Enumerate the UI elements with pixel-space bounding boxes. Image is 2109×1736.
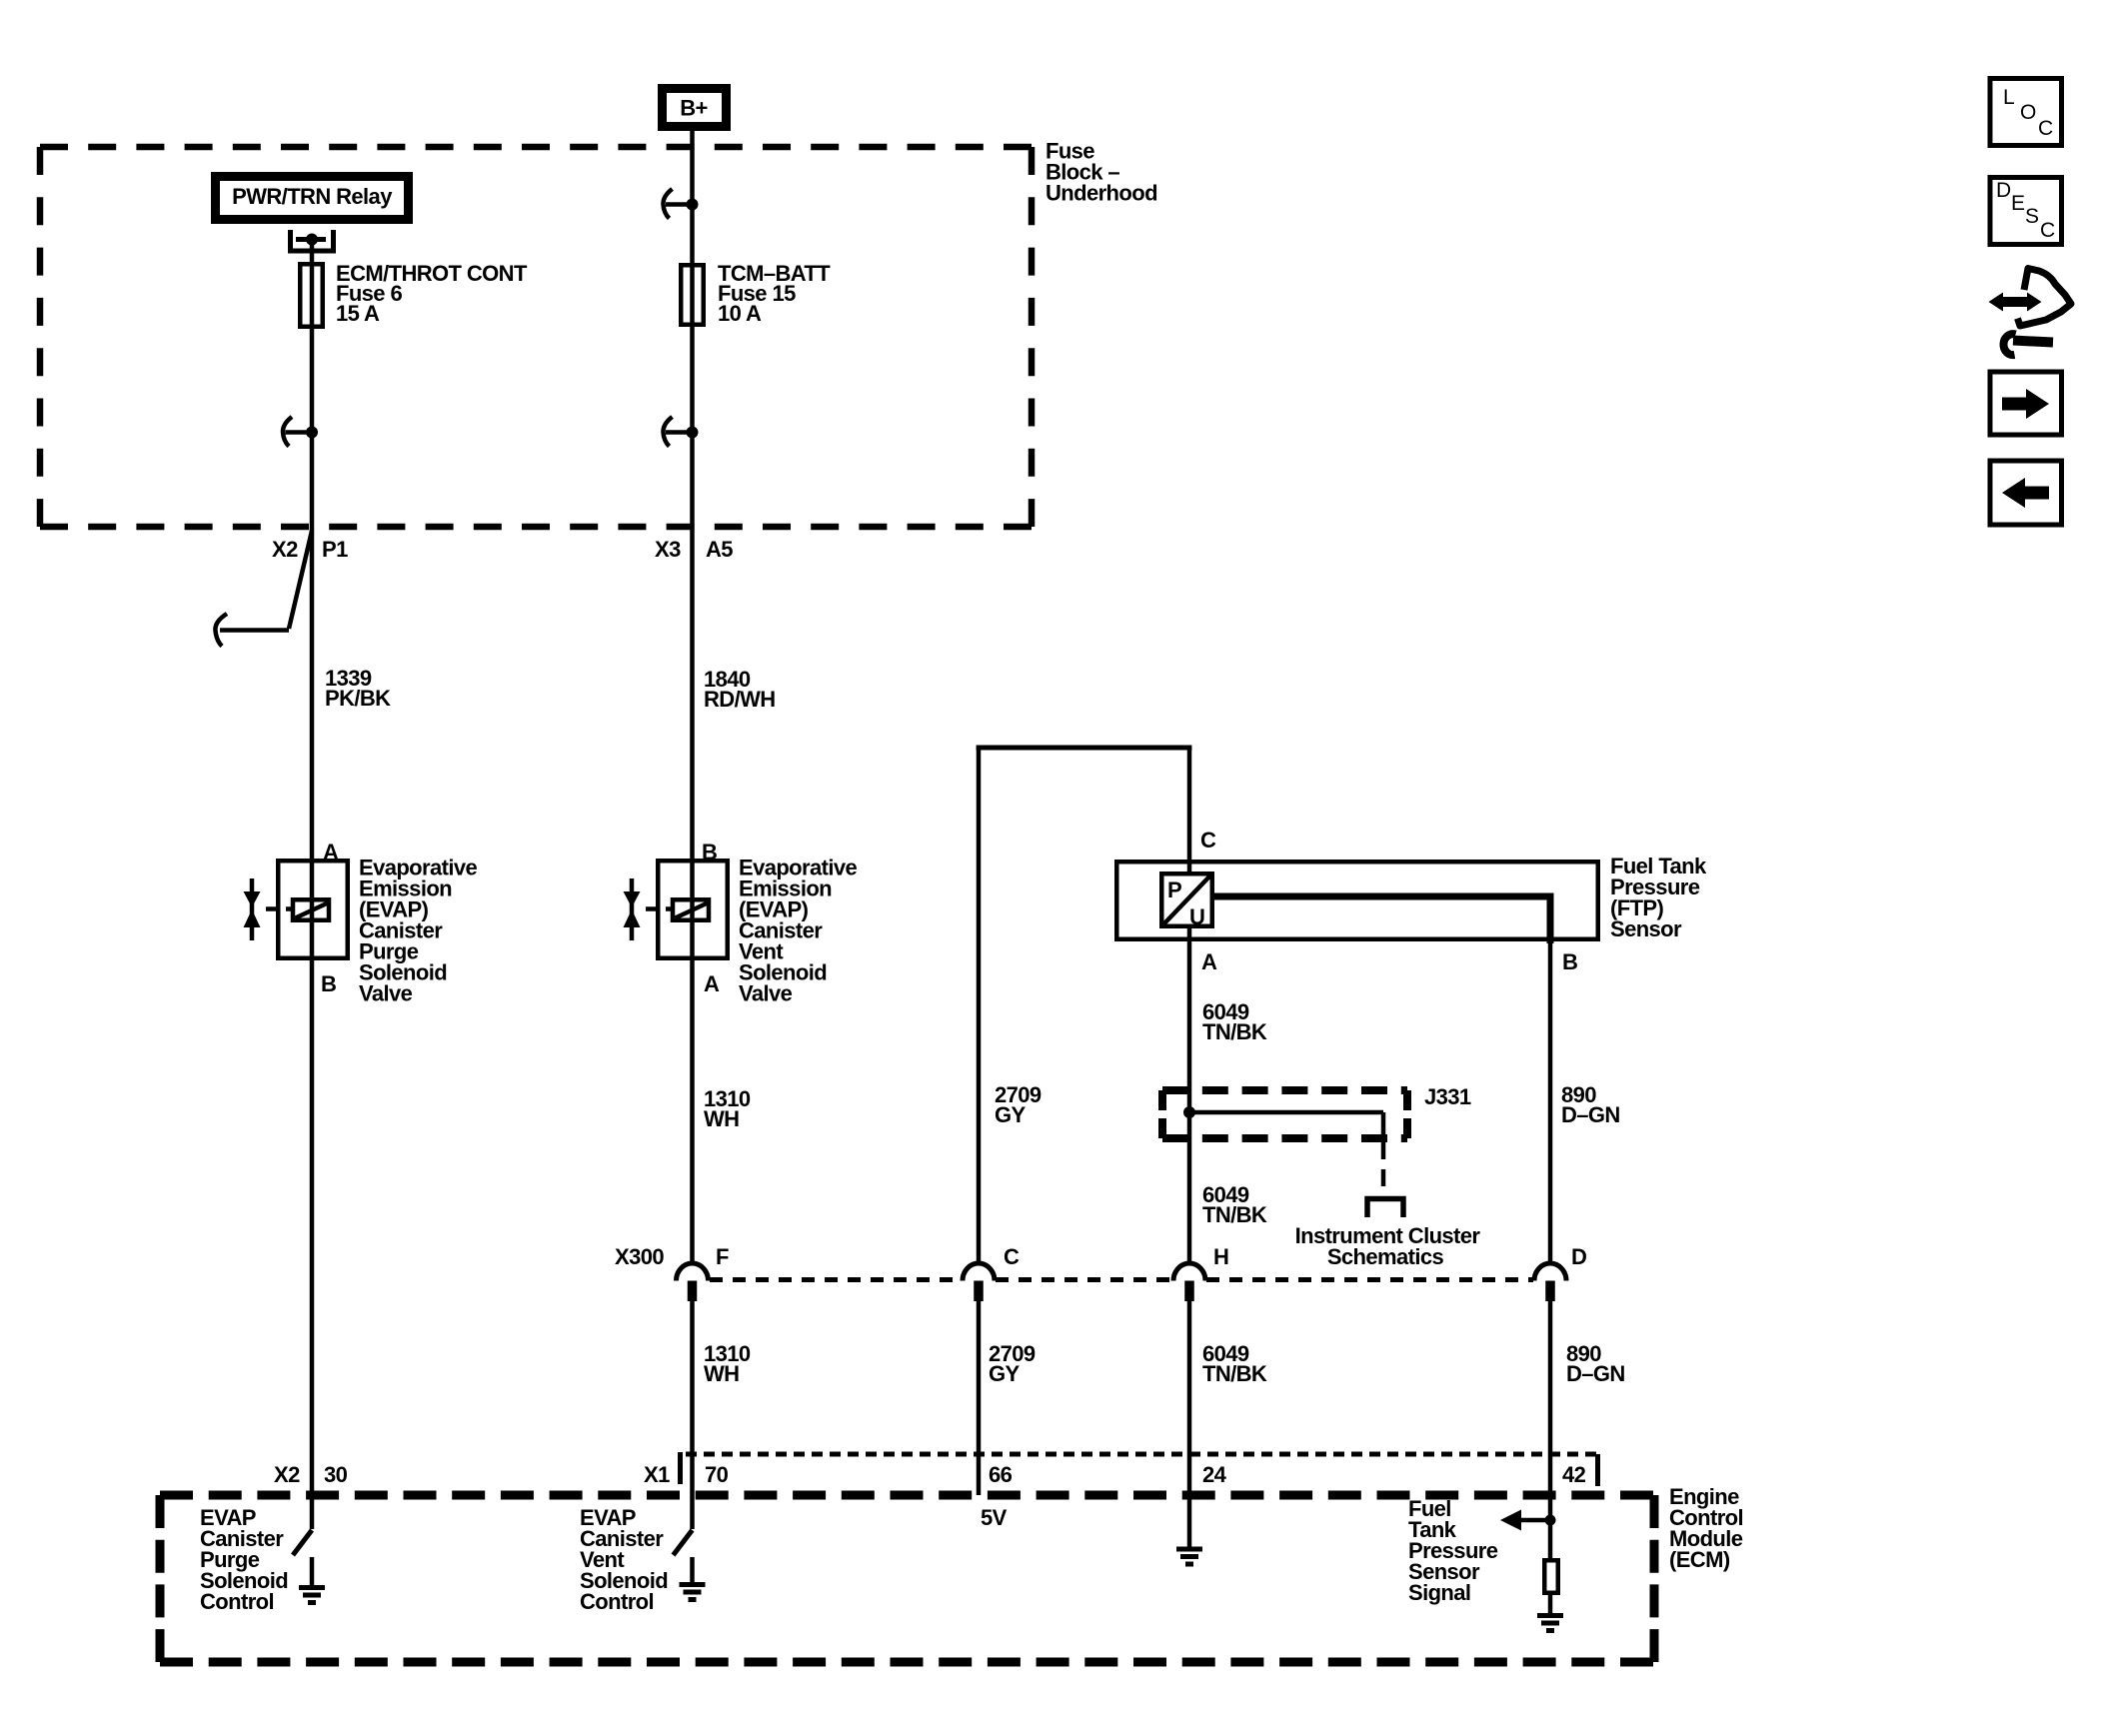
relay PWR/TRN Relay (label box) (216, 177, 409, 220)
label wire 1840 RD/WH (704, 667, 776, 712)
svg-text:70: 70 (705, 1462, 729, 1487)
icon LOC box (1990, 79, 2062, 146)
label wire 6049 TN/BK bottom (1202, 1341, 1267, 1386)
svg-text:24: 24 (1202, 1462, 1227, 1487)
svg-text:O: O (2020, 101, 2036, 124)
label wire 6049 TN/BK lower (1202, 1182, 1267, 1227)
icon DESC box (1990, 178, 2062, 245)
svg-text:A: A (323, 840, 339, 865)
resistor pull-up in ECM (1544, 1560, 1558, 1593)
svg-text:D–GN: D–GN (1566, 1361, 1625, 1386)
connector X300 terminal C (963, 1244, 1020, 1301)
svg-text:D: D (1996, 179, 2011, 202)
label Fuel Tank Pressure Sensor Signal (1408, 1496, 1498, 1605)
svg-text:10 A: 10 A (718, 301, 762, 326)
wire 2709 GY vertical (977, 748, 982, 1495)
wire resistor to ground (1548, 1592, 1553, 1613)
driver switch vent control (674, 1530, 693, 1555)
splice junction node on 6049 (1183, 1106, 1195, 1118)
contact terminal on wire 1339 bottom (283, 417, 318, 447)
svg-text:A: A (704, 971, 720, 996)
svg-text:B: B (321, 971, 336, 996)
label Evaporative Emission (EVAP) Canister Vent Solenoid Valve (739, 856, 857, 1006)
label Evaporative Emission (EVAP) Canister Purge Solenoid Valve (359, 856, 477, 1006)
svg-text:TN/BK: TN/BK (1202, 1019, 1267, 1044)
svg-text:P1: P1 (322, 537, 348, 562)
svg-text:X3: X3 (655, 537, 681, 562)
sensor FTP fuel tank pressure box (1116, 862, 1598, 939)
svg-text:A: A (1201, 949, 1217, 974)
sensor P/U transducer symbol (1161, 873, 1212, 929)
svg-text:RD/WH: RD/WH (704, 687, 776, 712)
svg-text:Valve: Valve (739, 981, 793, 1006)
signal arrow fuel tank pressure sensor input (1500, 1510, 1556, 1531)
svg-text:C: C (2040, 219, 2055, 242)
wire 1840 RD/WH vertical (second branch) (690, 131, 695, 1263)
label Fuse Block - Underhood (1046, 139, 1157, 206)
label Engine Control Module (ECM) (1669, 1484, 1743, 1572)
svg-text:B: B (1562, 949, 1577, 974)
svg-text:C: C (1200, 828, 1216, 853)
svg-text:B+: B+ (680, 96, 708, 121)
svg-text:X1: X1 (644, 1462, 670, 1487)
ground ECM resistor (1537, 1616, 1563, 1631)
fuse block - underhood dashed enclosure (40, 147, 1032, 527)
label wire 2709 GY lower (989, 1341, 1036, 1386)
svg-text:Control: Control (200, 1589, 274, 1614)
wire splice branch to instrument cluster (1189, 1112, 1383, 1195)
svg-text:P: P (1167, 877, 1181, 902)
svg-text:U: U (1189, 904, 1204, 929)
svg-text:GY: GY (995, 1102, 1027, 1127)
svg-text:S: S (2025, 205, 2039, 228)
label X2 30 (274, 1462, 348, 1487)
label wire 6049 TN/BK upper (1202, 999, 1267, 1044)
wire 890 D-GN from sensor output (1212, 893, 1554, 1560)
svg-text:C: C (1004, 1244, 1020, 1269)
driver switch purge control (293, 1530, 312, 1555)
svg-text:H: H (1213, 1244, 1228, 1269)
label X1 70 (644, 1462, 729, 1487)
label wire 1310 WH lower (704, 1341, 751, 1386)
svg-text:E: E (2011, 192, 2025, 215)
svg-text:WH: WH (704, 1361, 739, 1386)
icon arrow right box (1990, 372, 2062, 435)
off-page bracket instrument cluster (1367, 1199, 1403, 1218)
solenoid EVAP canister purge valve (266, 861, 348, 958)
svg-text:GY: GY (989, 1361, 1021, 1386)
svg-text:Schematics: Schematics (1327, 1244, 1444, 1269)
label wire 2709 GY upper (995, 1082, 1042, 1127)
svg-text:X2: X2 (272, 537, 298, 562)
svg-text:Valve: Valve (359, 981, 413, 1006)
svg-text:Sensor: Sensor (1610, 916, 1682, 941)
ground 6049 sensor low reference (1176, 1549, 1202, 1564)
svg-text:F: F (716, 1244, 729, 1269)
splice J331 dashed box (1162, 1090, 1407, 1138)
valve arrows vent solenoid (624, 878, 641, 940)
label X2 P1 (272, 537, 348, 562)
icon double arrow with pointer scribble and wrench (1989, 269, 2072, 356)
connector X300 terminal D (1534, 1244, 1586, 1301)
svg-text:J331: J331 (1424, 1084, 1471, 1109)
svg-text:66: 66 (989, 1462, 1013, 1487)
svg-text:PK/BK: PK/BK (325, 686, 391, 711)
connector X2 pin P1 pass-through symbol (215, 531, 312, 647)
svg-text:Signal: Signal (1408, 1580, 1470, 1605)
ground purge driver (299, 1557, 325, 1603)
node B+ (battery feed box) (663, 89, 727, 127)
svg-text:(ECM): (ECM) (1669, 1547, 1730, 1572)
svg-text:42: 42 (1562, 1462, 1586, 1487)
fuse F15 TCM-BATT 10A (681, 261, 831, 326)
label EVAP Canister Purge Solenoid Control (200, 1505, 288, 1614)
fuse F6 ECM/THROT CONT 15A (300, 261, 528, 327)
svg-text:TN/BK: TN/BK (1202, 1202, 1267, 1227)
label Instrument Cluster Schematics (1295, 1223, 1481, 1269)
wire 6049 TN/BK vertical (1187, 748, 1192, 1547)
connector X300 terminal H (1173, 1244, 1228, 1301)
svg-text:A5: A5 (706, 537, 733, 562)
svg-text:C: C (2038, 117, 2053, 140)
wire 5V supply loop top (977, 746, 1192, 751)
connector X300 dashed row (710, 1277, 1533, 1282)
connector X1 bracket right (1595, 1454, 1600, 1486)
svg-text:D: D (1571, 1244, 1586, 1269)
svg-text:X300: X300 (615, 1244, 664, 1269)
svg-text:B: B (702, 840, 717, 865)
connector X1 pin row dotted line (686, 1452, 1597, 1457)
svg-text:X2: X2 (274, 1462, 300, 1487)
solenoid EVAP canister vent valve (646, 861, 728, 958)
label wire 1310 WH upper (704, 1086, 751, 1131)
relay PWR/TRN output terminal bracket (291, 230, 334, 251)
contact terminal on wire 1840 bottom (663, 417, 698, 447)
icon arrow left box (1990, 461, 2062, 525)
label EVAP Canister Vent Solenoid Control (580, 1505, 668, 1614)
connector X1 bracket left (678, 1452, 683, 1484)
svg-text:15 A: 15 A (336, 301, 380, 326)
label X3 A5 (655, 537, 733, 562)
ECM engine control module dashed box (160, 1495, 1654, 1662)
wire 1339 PK/BK vertical (left branch) (310, 240, 315, 1530)
svg-text:30: 30 (324, 1462, 348, 1487)
valve arrows purge solenoid (244, 878, 261, 940)
label wire 890 D-GN upper (1561, 1082, 1620, 1127)
label wire 890 D-GN bottom (1566, 1341, 1625, 1386)
label Fuel Tank Pressure (FTP) Sensor (1610, 854, 1707, 941)
svg-text:Underhood: Underhood (1046, 181, 1157, 206)
svg-text:Control: Control (580, 1589, 654, 1614)
svg-text:TN/BK: TN/BK (1202, 1361, 1267, 1386)
svg-text:5V: 5V (981, 1505, 1008, 1530)
label wire 1339 PK/BK (325, 666, 391, 711)
contact terminal on wire 1840 top (663, 189, 698, 219)
ground vent driver (680, 1557, 706, 1600)
connector X300 terminal F (677, 1244, 730, 1301)
svg-text:D–GN: D–GN (1561, 1102, 1620, 1127)
svg-text:PWR/TRN Relay: PWR/TRN Relay (232, 184, 393, 209)
svg-text:L: L (2003, 86, 2014, 109)
svg-text:WH: WH (704, 1106, 739, 1131)
